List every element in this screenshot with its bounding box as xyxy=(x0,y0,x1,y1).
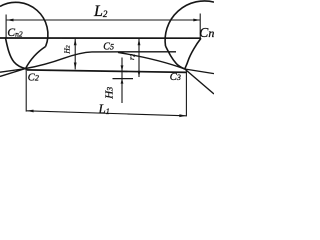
svg-text:Cn2: Cn2 xyxy=(7,27,22,39)
svg-text:L1: L1 xyxy=(98,101,110,116)
svg-text:C3: C3 xyxy=(170,72,181,83)
svg-text:H3: H3 xyxy=(103,87,115,100)
svg-text:C2: C2 xyxy=(28,73,39,84)
svg-text:L2: L2 xyxy=(93,3,108,20)
svg-text:H2: H2 xyxy=(62,45,71,54)
svg-text:C5: C5 xyxy=(103,41,114,52)
svg-text:r2: r2 xyxy=(127,54,136,60)
svg-text:Cn: Cn xyxy=(199,25,214,40)
